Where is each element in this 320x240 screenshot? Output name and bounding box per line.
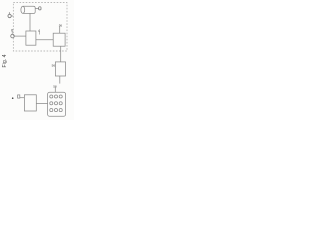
keypad button r3c3 [59,109,62,112]
camera cylinder body [23,6,35,13]
keypad button r1c2 [54,95,57,98]
camera cylinder left face (ellipse) [21,6,25,13]
keypad button r2c2 [54,102,57,105]
keypad button r2c3 [59,102,62,105]
small switch left of box C [18,95,20,98]
wire: switch to box C [20,97,25,99]
lead tick for microphone label [11,32,13,34]
lead wire: label 56 to box B top [59,27,61,34]
earpiece circle [8,14,11,17]
svg-text:58: 58 [53,85,57,89]
svg-text:56: 56 [59,24,63,28]
label dot left of switch [12,97,14,99]
svg-text:56: 56 [52,63,56,67]
dashed enclosure (device housing) [13,3,67,51]
keypad outline (rounded) [48,92,66,116]
wire: box C to keypad [36,103,47,105]
lead tick for label 54 [38,32,40,35]
box E (interface unit) [55,62,65,76]
keypad button r1c3 [59,95,62,98]
wire: earpiece to housing [11,15,13,17]
svg-text:4: 4 [38,29,40,33]
wire: cylinder to knob label [35,8,38,10]
wire: box B down to box E [60,46,62,62]
lead wire: label 58 into keypad [54,87,56,92]
keypad button r3c1 [50,109,53,112]
svg-text:Fig. 4: Fig. 4 [2,54,8,67]
wire: box E down toward keypad [59,76,61,84]
box A (camera processor) [26,31,36,45]
keypad button r3c2 [54,109,57,112]
microphone circle [11,34,15,38]
box B (control unit) [53,33,65,46]
keypad button r2c1 [50,102,53,105]
box C (handset speaker unit) [24,95,36,111]
wire: box A to box B [36,39,53,41]
label 8 (knob at cylinder) [39,7,41,10]
support wire: cylinder to box A [29,13,31,31]
wire: microphone to box A [14,35,26,37]
keypad button r1c1 [50,95,53,98]
